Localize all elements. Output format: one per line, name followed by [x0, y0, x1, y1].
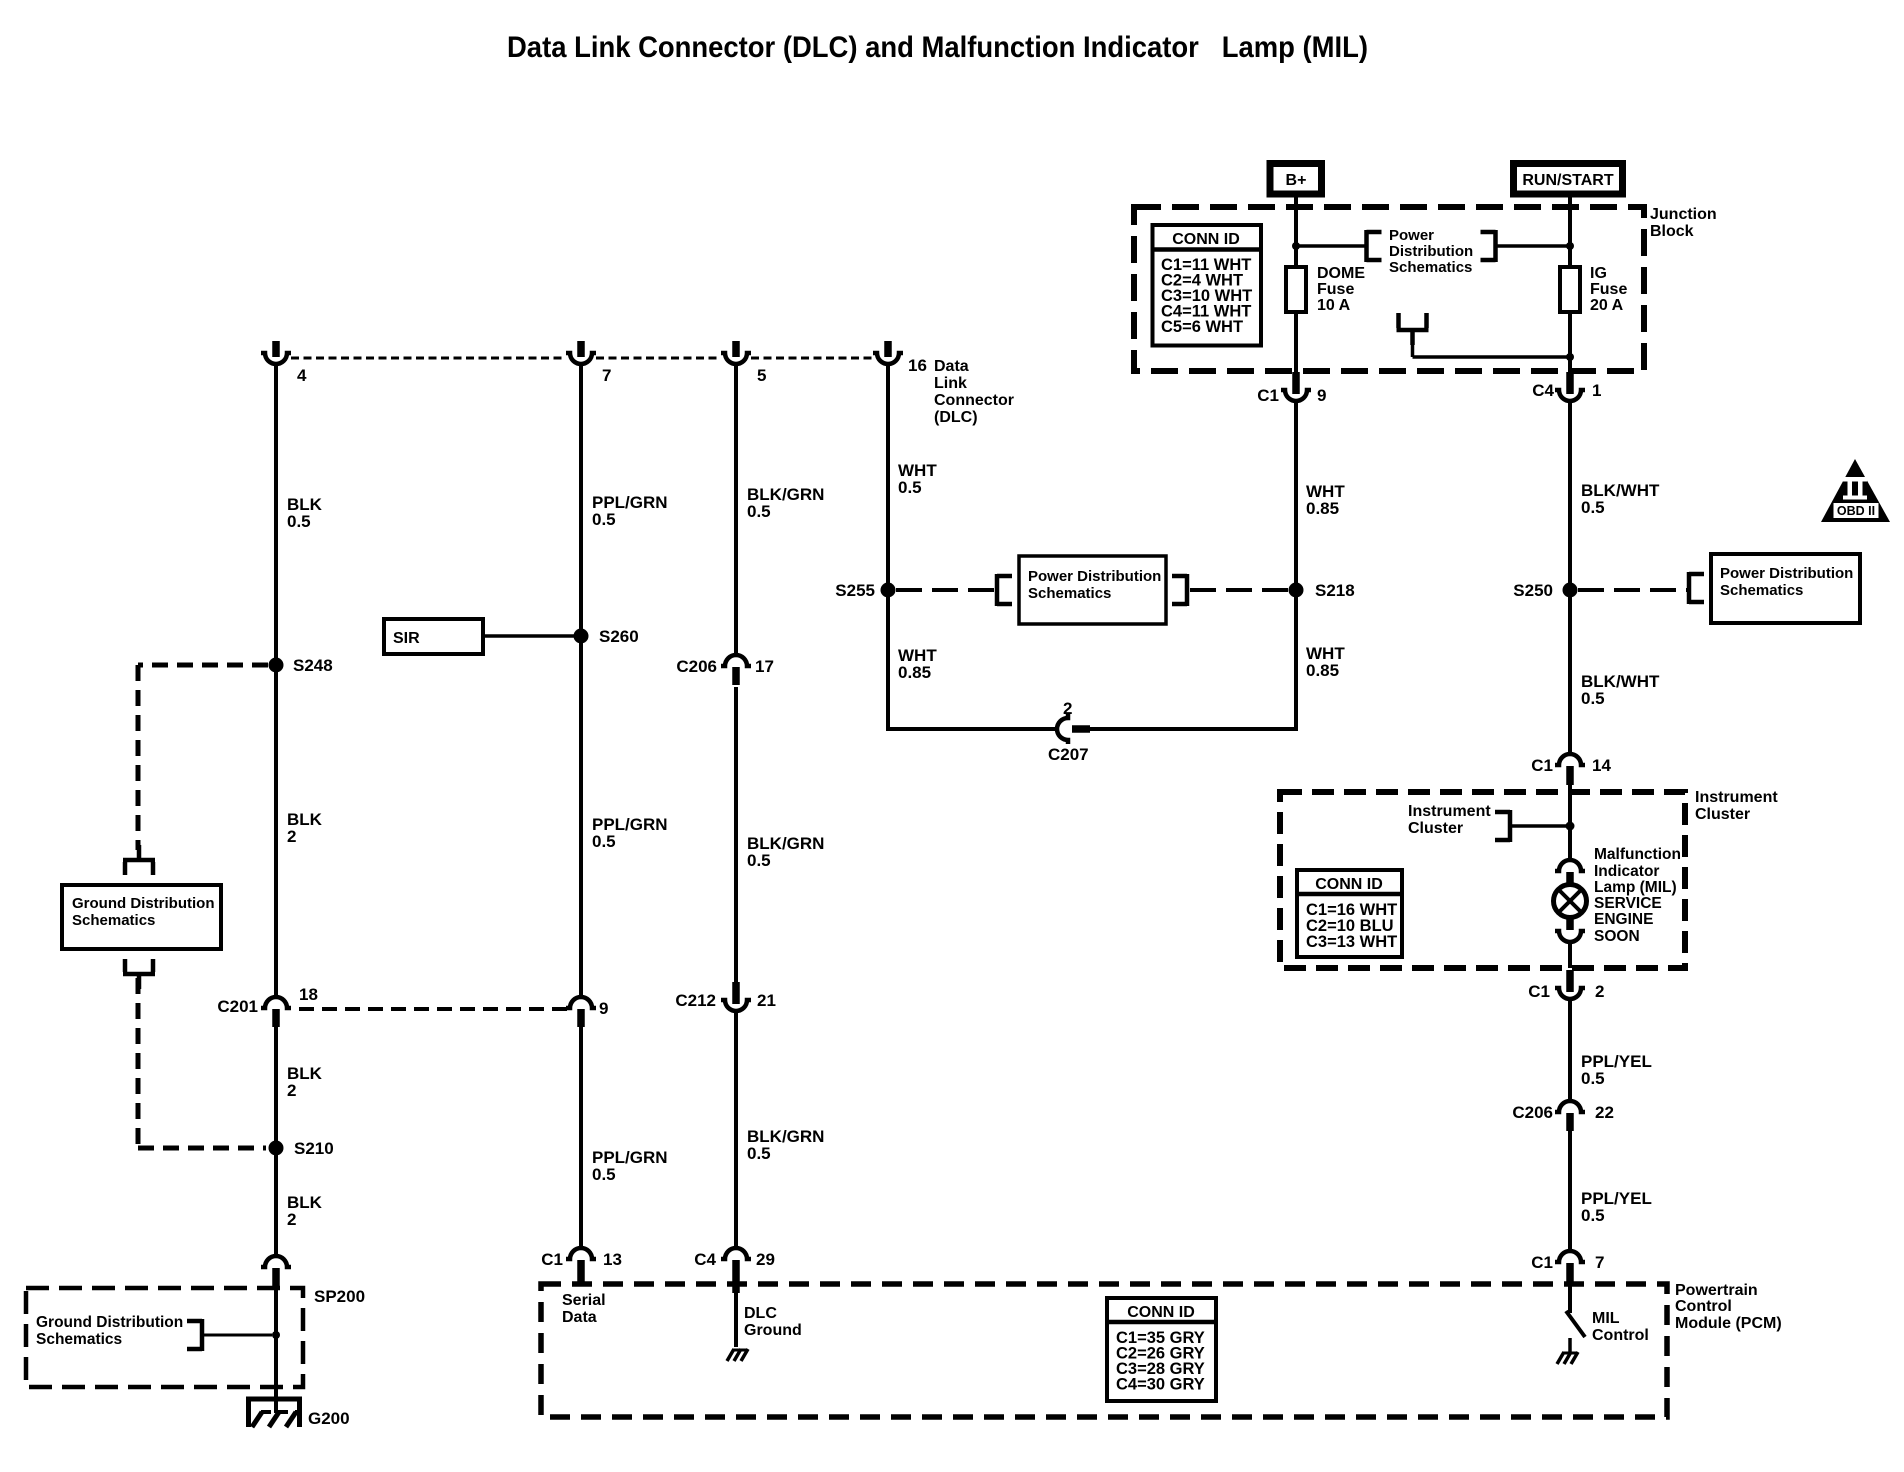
svg-text:SP200: SP200 [314, 1287, 365, 1306]
splice S260 [574, 629, 589, 644]
svg-text:0.85: 0.85 [1306, 499, 1339, 518]
splice S250 [1563, 583, 1578, 598]
svg-text:2: 2 [1595, 982, 1604, 1001]
svg-text:Fuse: Fuse [1590, 281, 1627, 298]
svg-text:Cluster: Cluster [1408, 820, 1463, 837]
svg-text:2: 2 [1063, 699, 1072, 718]
wire dashed S248 to ground distribution schematics [138, 663, 268, 668]
junction SP200 [272, 1331, 280, 1339]
svg-text:9: 9 [599, 999, 608, 1018]
svg-text:Power Distribution: Power Distribution [1028, 568, 1161, 585]
wire BLK 2 (C201 to SP200) [274, 1026, 278, 1256]
wire SIR to S260 [483, 634, 574, 638]
svg-text:Block: Block [1650, 223, 1694, 240]
svg-text:0.5: 0.5 [747, 851, 771, 870]
svg-text:Connector: Connector [934, 392, 1014, 409]
junction MIL branch [1566, 822, 1575, 831]
svg-text:Ground Distribution: Ground Distribution [36, 1314, 183, 1331]
wire bracket to RUN/START branch [1496, 244, 1571, 248]
svg-text:Junction: Junction [1650, 206, 1717, 223]
svg-text:18: 18 [299, 985, 318, 1004]
svg-text:0.5: 0.5 [1581, 689, 1605, 708]
ground G200 [246, 1399, 302, 1427]
box CONN ID (instrument cluster) [1297, 870, 1402, 957]
svg-text:7: 7 [602, 366, 611, 385]
svg-text:Fuse: Fuse [1317, 281, 1354, 298]
svg-text:Module (PCM): Module (PCM) [1675, 1315, 1782, 1332]
svg-text:Power Distribution: Power Distribution [1720, 565, 1853, 582]
svg-text:C1: C1 [1531, 756, 1553, 775]
svg-text:0.5: 0.5 [1581, 1206, 1605, 1225]
svg-text:Cluster: Cluster [1695, 806, 1750, 823]
wire WHT 0.85 (C1-9 down to C207) [1294, 401, 1298, 731]
svg-text:Schematics: Schematics [72, 912, 155, 929]
connector C207 terminal 2 [1057, 714, 1090, 744]
svg-text:S255: S255 [835, 581, 875, 600]
connector DLC terminal 16 [873, 341, 903, 364]
svg-text:2: 2 [287, 827, 296, 846]
bracket from ground distribution (bottom) [123, 959, 155, 989]
svg-text:0.85: 0.85 [898, 663, 931, 682]
svg-text:16: 16 [908, 356, 927, 375]
svg-text:0.5: 0.5 [1581, 1069, 1605, 1088]
svg-text:C207: C207 [1048, 745, 1089, 764]
wire switch to ground [1568, 1338, 1572, 1353]
box CONN ID (junction block) [1153, 225, 1262, 346]
svg-text:5: 5 [757, 366, 766, 385]
svg-text:C201: C201 [217, 997, 258, 1016]
svg-text:13: 13 [603, 1250, 622, 1269]
svg-text:9: 9 [1317, 386, 1326, 405]
wire WHT 0.85 to C207 [886, 727, 1057, 731]
svg-text:C1: C1 [541, 1250, 563, 1269]
wire to power distribution bracket [1296, 244, 1366, 248]
splice S218 [1289, 583, 1304, 598]
svg-text:Ground Distribution: Ground Distribution [72, 895, 214, 912]
fuse IG Fuse 20A [1560, 267, 1580, 312]
wire PPL/YEL 0.5 (C206-22 down) [1568, 1131, 1572, 1251]
wire into instrument cluster [1568, 785, 1572, 860]
svg-text:DLC: DLC [744, 1305, 777, 1322]
connector C206 terminal 22 [1555, 1101, 1585, 1131]
svg-text:Lamp (MIL): Lamp (MIL) [1594, 879, 1677, 896]
svg-text:IG: IG [1590, 265, 1607, 282]
svg-text:SIR: SIR [393, 630, 420, 647]
junction RUN/START tap [1566, 242, 1574, 250]
svg-text:C4: C4 [694, 1250, 716, 1269]
wire lamp to C1-2 [1568, 941, 1572, 968]
box Ground Distribution Schematics [62, 885, 221, 949]
svg-text:Distribution: Distribution [1389, 243, 1473, 260]
svg-text:S250: S250 [1513, 581, 1553, 600]
svg-text:C5=6 WHT: C5=6 WHT [1161, 318, 1243, 336]
wire BLK/GRN 0.5 (C212 to C4-29) [734, 1010, 738, 1248]
junction B+ distribution tap [1292, 242, 1300, 250]
svg-text:MIL: MIL [1592, 1310, 1620, 1327]
box splice pack SP200 (dashed) [26, 1288, 303, 1387]
box Powertrain Control Module (dashed) [541, 1284, 1667, 1417]
svg-text:20 A: 20 A [1590, 297, 1624, 314]
wire WHT 0.85 C207 to S218 branch [1090, 727, 1296, 731]
svg-text:0.5: 0.5 [747, 1144, 771, 1163]
svg-text:29: 29 [756, 1250, 775, 1269]
connector C212 terminal 21 [721, 982, 751, 1011]
box CONN ID (PCM) [1107, 1298, 1216, 1401]
svg-text:OBD II: OBD II [1837, 504, 1875, 518]
svg-text:0.5: 0.5 [747, 502, 771, 521]
svg-text:0.5: 0.5 [898, 478, 922, 497]
svg-text:17: 17 [755, 657, 774, 676]
bracket power distribution (right) [1172, 574, 1187, 606]
svg-text:Data Link Connector (DLC) and: Data Link Connector (DLC) and Malfunctio… [507, 31, 1368, 64]
connector C1 terminal 7 (PCM) [1555, 1251, 1585, 1283]
wire BLK/GRN 0.5 (DLC pin5 down) [734, 364, 738, 655]
connector SP200 inline [261, 1256, 291, 1286]
svg-text:C3=13 WHT: C3=13 WHT [1306, 933, 1397, 951]
wire bracket to SP200 splice [202, 1334, 272, 1337]
svg-text:22: 22 [1595, 1103, 1614, 1122]
wire dashed S250 to power distribution [1578, 588, 1687, 592]
svg-text:CONN ID: CONN ID [1127, 1304, 1195, 1321]
svg-text:Power: Power [1389, 227, 1434, 244]
svg-text:SOON: SOON [1594, 928, 1640, 945]
switch MIL Control [1566, 1311, 1585, 1337]
svg-text:Data: Data [934, 358, 969, 375]
svg-text:CONN ID: CONN ID [1172, 231, 1240, 248]
wire PPL/YEL 0.5 (C1-2 down) [1568, 999, 1572, 1101]
wire DOME fuse to C1-9 [1294, 312, 1298, 372]
lamp MIL (SERVICE ENGINE SOON) [1554, 860, 1587, 942]
svg-text:Ground: Ground [744, 1322, 802, 1339]
bracket power distribution (far right) [1689, 572, 1704, 604]
svg-text:7: 7 [1595, 1253, 1604, 1272]
wire bracket down [1411, 330, 1415, 357]
connector DLC terminal 7 [566, 341, 596, 364]
svg-text:S210: S210 [294, 1139, 334, 1158]
svg-text:ENGINE: ENGINE [1594, 911, 1653, 928]
wire bracket to IG branch [1413, 355, 1571, 359]
svg-text:C206: C206 [676, 657, 717, 676]
wire B+ into junction block [1294, 197, 1298, 267]
svg-text:(DLC): (DLC) [934, 409, 978, 426]
splice S255 [881, 583, 896, 598]
connector C1 terminal 9 (junction block) [1281, 372, 1311, 401]
svg-text:DOME: DOME [1317, 265, 1365, 282]
wire BLK/GRN 0.5 (C206 to C212) [734, 687, 738, 982]
bracket ground distribution (SP200) [187, 1319, 202, 1351]
wire bracket to MIL branch [1510, 824, 1570, 828]
wire PPL/GRN 0.5 (to C1-13) [579, 1026, 583, 1248]
wire dashed power distribution to S218 [1190, 588, 1288, 592]
svg-text:C206: C206 [1512, 1103, 1553, 1122]
splice S248 [269, 658, 284, 673]
connector C1 terminal 2 (instrument cluster) [1555, 970, 1585, 999]
box B+ feed [1270, 164, 1322, 195]
ground MIL control ground symbol [1557, 1352, 1578, 1364]
svg-text:Indicator: Indicator [1594, 863, 1659, 880]
connector C201 terminal 18 [261, 997, 291, 1027]
svg-text:Instrument: Instrument [1695, 789, 1778, 806]
box Power Distribution Schematics (middle) [1019, 556, 1166, 624]
svg-text:10 A: 10 A [1317, 297, 1351, 314]
wire IG fuse to C4-1 [1568, 312, 1572, 374]
bracket power distribution (junction block left) [1367, 230, 1382, 262]
wire dashed ground distribution to S210 [136, 978, 141, 1148]
svg-text:S248: S248 [293, 656, 333, 675]
svg-text:0.5: 0.5 [592, 832, 616, 851]
svg-text:Schematics: Schematics [1028, 585, 1111, 602]
wire dashed C201-18 to C201-9 [299, 1007, 570, 1011]
svg-text:C1: C1 [1531, 1253, 1553, 1272]
svg-text:C4: C4 [1532, 381, 1554, 400]
box Instrument Cluster (dashed) [1280, 792, 1685, 968]
connector C4 terminal 1 (junction block) [1555, 372, 1585, 401]
bracket power distribution (left) [997, 574, 1012, 606]
bracket power distribution (junction block right) [1481, 230, 1496, 262]
bracket to ground distribution (top) [123, 845, 155, 875]
junction IG branch [1566, 353, 1574, 361]
wire dashed S255 to power distribution [896, 588, 996, 592]
svg-text:4: 4 [297, 366, 307, 385]
svg-text:Control: Control [1675, 1298, 1732, 1315]
svg-text:1: 1 [1592, 381, 1601, 400]
svg-text:Malfunction: Malfunction [1594, 846, 1681, 863]
connector C4 terminal 29 (PCM) [721, 1248, 751, 1293]
svg-text:Serial: Serial [562, 1292, 606, 1309]
wire to G200 [274, 1289, 278, 1413]
wire PPL/GRN 0.5 (DLC pin7 down) [579, 364, 583, 997]
svg-text:21: 21 [757, 991, 776, 1010]
svg-text:C4=30 GRY: C4=30 GRY [1116, 1376, 1205, 1394]
svg-text:0.85: 0.85 [1306, 661, 1339, 680]
box Junction Block (dashed) [1134, 207, 1644, 371]
svg-text:Schematics: Schematics [36, 1331, 122, 1348]
svg-text:G200: G200 [308, 1409, 350, 1428]
svg-text:0.5: 0.5 [592, 1165, 616, 1184]
bracket junction block internal feed [1397, 313, 1429, 345]
svg-text:Link: Link [934, 375, 967, 392]
fuse DOME Fuse 10A [1286, 267, 1306, 312]
box SIR [384, 619, 483, 654]
svg-text:CONN ID: CONN ID [1315, 876, 1383, 893]
svg-text:SERVICE: SERVICE [1594, 895, 1662, 912]
svg-text:C212: C212 [675, 991, 716, 1010]
box Power Distribution Schematics (right) [1711, 554, 1860, 623]
svg-text:2: 2 [287, 1081, 296, 1100]
wire WHT 0.5/0.85 (DLC pin16 down) [886, 364, 890, 729]
wire RUN/START into junction block [1568, 197, 1572, 267]
svg-text:RUN/START: RUN/START [1522, 172, 1613, 189]
svg-text:Instrument: Instrument [1408, 803, 1491, 820]
svg-text:0.5: 0.5 [1581, 498, 1605, 517]
svg-text:S218: S218 [1315, 581, 1355, 600]
connector DLC terminal 4 [261, 341, 291, 364]
connector DLC terminal 5 [721, 341, 751, 364]
svg-text:Schematics: Schematics [1389, 259, 1472, 276]
svg-text:0.5: 0.5 [287, 512, 311, 531]
wire dashed DLC connector bar [291, 357, 566, 360]
svg-text:0.5: 0.5 [592, 510, 616, 529]
box RUN/START feed [1514, 164, 1623, 195]
connector C1 terminal 14 (instrument cluster) [1555, 754, 1585, 785]
svg-text:2: 2 [287, 1210, 296, 1229]
svg-text:Data: Data [562, 1309, 597, 1326]
wire to DLC ground [734, 1293, 738, 1347]
connector C201 terminal 9 [566, 997, 596, 1027]
svg-text:S260: S260 [599, 627, 639, 646]
connector C1 terminal 13 (PCM) [566, 1248, 596, 1284]
wire BLK/WHT 0.5 (C4-1 down) [1568, 401, 1572, 752]
wire C1-7 to MIL control switch [1568, 1283, 1572, 1313]
svg-text:Schematics: Schematics [1720, 582, 1803, 599]
svg-text:B+: B+ [1286, 172, 1307, 189]
splice S210 [269, 1141, 284, 1156]
symbol OBD II triangle [1821, 459, 1890, 522]
svg-text:C1: C1 [1528, 982, 1550, 1001]
svg-text:14: 14 [1592, 756, 1611, 775]
svg-text:Powertrain: Powertrain [1675, 1282, 1758, 1299]
bracket instrument cluster feed [1495, 810, 1510, 842]
svg-text:C1: C1 [1257, 386, 1279, 405]
wire BLK 0.5/2 (DLC pin4 down) [274, 364, 278, 997]
svg-text:Control: Control [1592, 1327, 1649, 1344]
ground DLC ground symbol [727, 1349, 748, 1361]
connector C206 terminal 17 [721, 655, 751, 685]
